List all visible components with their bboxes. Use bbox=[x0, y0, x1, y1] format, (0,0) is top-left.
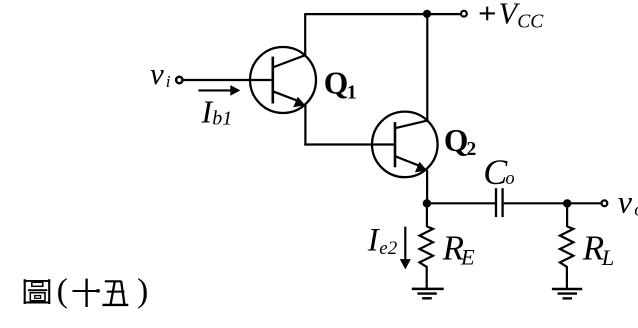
wire Q1 emitter to Q2 base corner bbox=[304, 105, 395, 146]
wire output node to terminal bbox=[567, 202, 601, 204]
label Q2 bbox=[444, 123, 476, 160]
ground left bbox=[412, 289, 444, 298]
current arrow Ie2 bbox=[400, 227, 411, 270]
label vi bbox=[150, 56, 171, 91]
svg-text:CC: CC bbox=[517, 11, 544, 32]
svg-text:E: E bbox=[460, 244, 475, 269]
label Ib1 bbox=[201, 93, 233, 129]
transistor Q2 circle bbox=[372, 112, 438, 178]
svg-text:v: v bbox=[618, 184, 633, 220]
transistor Q1 base bar bbox=[271, 57, 274, 104]
node emitter junction dot bbox=[423, 199, 431, 207]
resistor RE zigzag bbox=[420, 227, 434, 267]
label RL bbox=[582, 229, 615, 270]
wire output node to RL bbox=[566, 203, 568, 227]
label RE bbox=[442, 229, 475, 270]
caption glyph ten bbox=[73, 279, 100, 307]
ground right bbox=[552, 289, 582, 298]
wire Q2 emitter down to node bbox=[426, 170, 428, 204]
svg-text:b1: b1 bbox=[212, 108, 232, 130]
wire Q1 collector riser bbox=[304, 14, 306, 55]
node VCC junction dot bbox=[423, 10, 431, 18]
terminal +VCC open circle bbox=[461, 11, 467, 17]
transistor Q2 base bar bbox=[394, 122, 397, 167]
svg-text:): ) bbox=[137, 273, 148, 310]
caption glyph five bbox=[102, 281, 128, 305]
wire top rail bbox=[304, 13, 460, 15]
terminal vo open circle bbox=[602, 200, 608, 206]
terminal vi open circle bbox=[176, 77, 182, 83]
resistor RL zigzag bbox=[560, 227, 574, 267]
wire vi to Q1 base bbox=[184, 79, 273, 81]
wire Q2 collector riser bbox=[426, 14, 428, 121]
wire node to RE bbox=[426, 203, 428, 227]
svg-text:Q: Q bbox=[324, 66, 349, 101]
transistor Q1 emitter lead with arrow bbox=[273, 91, 305, 107]
label Ie2 bbox=[367, 222, 398, 258]
svg-text:i: i bbox=[166, 72, 171, 91]
transistor Q1 circle bbox=[250, 47, 316, 113]
wire capacitor to output node bbox=[504, 202, 568, 204]
transistor Q2 collector lead bbox=[395, 121, 427, 129]
label Q1 bbox=[324, 66, 357, 104]
node output junction dot bbox=[563, 199, 571, 207]
caption glyph TU (figure) bbox=[24, 279, 51, 304]
label Co bbox=[483, 152, 514, 192]
svg-text:2: 2 bbox=[467, 139, 477, 160]
svg-text:(: ( bbox=[57, 273, 68, 310]
current arrow Ib1 bbox=[198, 85, 240, 96]
transistor Q1 collector lead bbox=[273, 55, 305, 67]
svg-text:L: L bbox=[601, 245, 615, 270]
label vo bbox=[618, 184, 638, 221]
svg-text:o: o bbox=[634, 199, 638, 220]
svg-text:v: v bbox=[150, 56, 164, 91]
svg-text:Q: Q bbox=[444, 123, 469, 158]
transistor Q2 emitter lead with arrow bbox=[395, 156, 427, 172]
wire RE to ground bbox=[426, 266, 428, 289]
wire RL to ground bbox=[566, 266, 568, 289]
svg-text:e2: e2 bbox=[379, 238, 397, 259]
svg-text:1: 1 bbox=[347, 81, 357, 103]
label +VCC bbox=[480, 0, 545, 32]
wire node to capacitor bbox=[427, 202, 495, 204]
capacitor Co plates bbox=[496, 188, 503, 217]
svg-text:o: o bbox=[505, 169, 514, 189]
